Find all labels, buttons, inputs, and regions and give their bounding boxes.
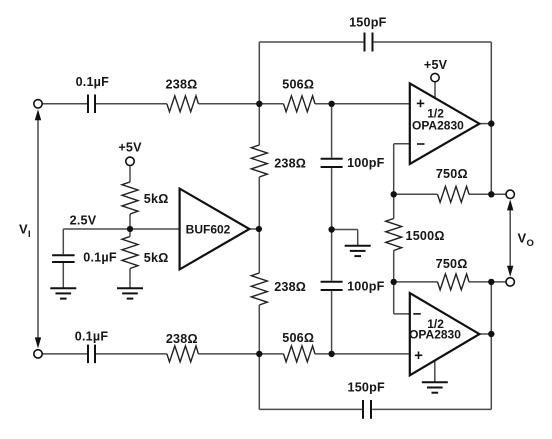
svg-text:750Ω: 750Ω — [436, 257, 468, 271]
wire U1 inverting input vertical to node F1 — [393, 144, 395, 195]
wire 2.5V corner down to C7 — [62, 229, 64, 254]
VO arrow down — [507, 266, 513, 277]
capacitor C2 0.1uF bottom input — [88, 345, 95, 364]
node BUF602 bias junction — [127, 226, 133, 232]
wire R4 to U2 + input through node D — [315, 353, 410, 355]
svg-text:100pF: 100pF — [347, 280, 385, 294]
terminal input bottom — [34, 350, 42, 358]
VO arrow up — [507, 199, 513, 210]
node F1 junction — [391, 191, 397, 197]
wire middle rail R5 to BUF602 output node — [258, 177, 260, 273]
svg-text:150pF: 150pF — [349, 15, 387, 29]
wire U2 ground stem — [434, 362, 436, 383]
wire U1 inverting input horizontal — [394, 143, 410, 145]
svg-text:238Ω: 238Ω — [166, 78, 198, 92]
ground bypass C7 — [50, 288, 76, 298]
resistor R1 238 ohm top — [167, 96, 199, 112]
svg-text:0.1µF: 0.1µF — [83, 250, 117, 264]
svg-text:OPA2830: OPA2830 — [412, 119, 464, 133]
ground center tap — [345, 246, 371, 256]
wire right rail down to U1 output node — [490, 42, 492, 124]
svg-text:750Ω: 750Ω — [436, 167, 468, 181]
node U2 output junction — [488, 331, 494, 337]
wire R11 to ground — [129, 269, 131, 289]
op-amp U1 1/2 OPA2830 top — [410, 83, 480, 164]
resistor R5 238 ohm vertical top — [251, 145, 267, 177]
wire C1 to R1 — [96, 103, 167, 105]
svg-text:V: V — [518, 230, 527, 245]
svg-text:2.5V: 2.5V — [70, 214, 97, 228]
svg-text:238Ω: 238Ω — [166, 332, 198, 346]
svg-text:+5V: +5V — [424, 58, 448, 72]
svg-text:+5V: +5V — [118, 140, 142, 154]
svg-text:O: O — [527, 238, 534, 249]
terminal +5V BUF602 — [126, 157, 134, 165]
node D junction — [328, 351, 334, 357]
wire ground tap horizontal — [332, 229, 358, 231]
resistor R4 506 ohm bottom — [284, 346, 315, 362]
wire node F1 to R7 — [394, 193, 438, 195]
wire C2 to R2 — [96, 353, 167, 355]
capacitor C3 100pF top — [321, 159, 343, 167]
VO measurement line — [509, 208, 511, 268]
wire node F1 down to R9 — [393, 194, 395, 218]
terminal output bottom — [506, 278, 514, 286]
svg-text:100pF: 100pF — [347, 156, 385, 170]
wire node F2 to R8 — [394, 281, 438, 283]
op-amp U2 1/2 OPA2830 bottom — [410, 293, 480, 375]
svg-text:OPA2830: OPA2830 — [409, 327, 461, 341]
wire C3 to C4 through ground tap node E — [331, 168, 333, 281]
wire +5V terminal to R10 — [129, 166, 131, 182]
wire middle rail node A to R5 — [258, 104, 260, 145]
wire node B down to C3 — [331, 104, 333, 158]
resistor R8 750 ohm bottom — [438, 274, 469, 290]
svg-text:I: I — [28, 229, 31, 240]
node top output junction — [488, 191, 494, 197]
svg-text:V: V — [19, 221, 28, 236]
svg-text:0.1µF: 0.1µF — [76, 75, 110, 89]
wire U2 inverting input vertical — [393, 282, 395, 314]
svg-text:BUF602: BUF602 — [186, 222, 231, 236]
capacitor C1 0.1uF top input — [88, 95, 95, 114]
VI arrow up — [35, 109, 41, 120]
wire R3 to U1 + input through node B — [315, 103, 410, 105]
capacitor C4 100pF bottom — [321, 282, 343, 290]
wire ground tap vertical — [357, 230, 359, 246]
terminal +5V U1 — [431, 73, 439, 81]
terminal output top — [506, 190, 514, 198]
node U1 output junction — [488, 120, 494, 126]
svg-text:506Ω: 506Ω — [282, 331, 314, 345]
resistor R6 238 ohm vertical bottom — [251, 273, 267, 305]
wire right rail U1 output to top output row — [490, 124, 492, 195]
U1 - pin label — [417, 143, 425, 145]
svg-text:238Ω: 238Ω — [274, 156, 306, 170]
ground U2 — [422, 382, 448, 392]
resistor R2 238 ohm bottom — [167, 346, 199, 362]
wire R2 to R4 through node C — [198, 353, 283, 355]
wire node A up to top feedback — [258, 42, 260, 104]
wire R10 to node F — [129, 214, 131, 237]
capacitor C6 150pF bottom feedback — [363, 400, 371, 419]
wire right rail U2 output down to bottom feedback — [490, 334, 492, 409]
wire node C down to bottom feedback — [258, 354, 260, 410]
wire C7 to ground — [62, 263, 64, 288]
wire middle rail R6 to node C — [258, 305, 260, 354]
wire U1 -5V... +5V stem — [434, 82, 436, 98]
svg-text:0.1µF: 0.1µF — [75, 329, 109, 343]
svg-text:5kΩ: 5kΩ — [144, 251, 169, 265]
svg-text:506Ω: 506Ω — [282, 78, 314, 92]
VI arrow down — [35, 337, 41, 348]
node B junction — [328, 101, 334, 107]
wire C4 to node D — [331, 291, 333, 354]
capacitor C5 150pF top feedback — [365, 33, 373, 52]
svg-text:1500Ω: 1500Ω — [406, 229, 445, 243]
wire U1 output stub — [479, 123, 491, 125]
wire R7 to top output terminal — [469, 193, 506, 195]
node bottom output junction — [488, 279, 494, 285]
node A junction — [256, 101, 262, 107]
node C junction — [256, 351, 262, 357]
wire bottom feedback left segment to C6 — [259, 408, 362, 410]
svg-text:5kΩ: 5kΩ — [144, 192, 169, 206]
wire R9 to node F2 — [393, 251, 395, 282]
wire 2.5V node to BUF602 input — [63, 228, 179, 230]
wire bottom input: terminal to C2 — [43, 353, 88, 355]
svg-text:150pF: 150pF — [347, 381, 385, 395]
resistor R11 5k ohm bottom — [122, 237, 138, 269]
resistor R7 750 ohm top — [438, 186, 469, 202]
terminal input top — [34, 100, 42, 108]
buffer U3 BUF602 — [180, 189, 250, 270]
svg-text:238Ω: 238Ω — [274, 280, 306, 294]
wire U2 output stub — [479, 333, 491, 335]
ground R11 — [117, 288, 143, 298]
wire top input: terminal to C1 — [43, 103, 88, 105]
wire R8 to bottom output terminal — [469, 281, 506, 283]
node BUF602 output junction — [256, 226, 262, 232]
capacitor C7 0.1uF bypass — [52, 255, 75, 262]
wire bottom feedback right segment — [372, 408, 491, 410]
wire top feedback right segment C5 to right rail — [374, 41, 492, 43]
VI measurement line — [37, 118, 39, 339]
resistor R9 1500 ohm — [386, 219, 402, 251]
resistor R10 5k ohm top — [122, 182, 138, 214]
wire right rail bottom output row to U2 output — [490, 282, 492, 334]
wire R1 to R3 through node A — [198, 103, 283, 105]
U1 + pin label — [417, 100, 425, 108]
wire top feedback left segment to C5 — [259, 41, 363, 43]
node F2 junction — [391, 279, 397, 285]
wire U2 inverting input horizontal — [394, 313, 410, 315]
wire BUF602 output stub — [249, 228, 259, 230]
resistor R3 506 ohm top — [284, 96, 315, 112]
node E ground tap junction — [328, 226, 334, 232]
U2 + pin label — [415, 352, 423, 360]
U2 - pin label — [413, 313, 421, 315]
